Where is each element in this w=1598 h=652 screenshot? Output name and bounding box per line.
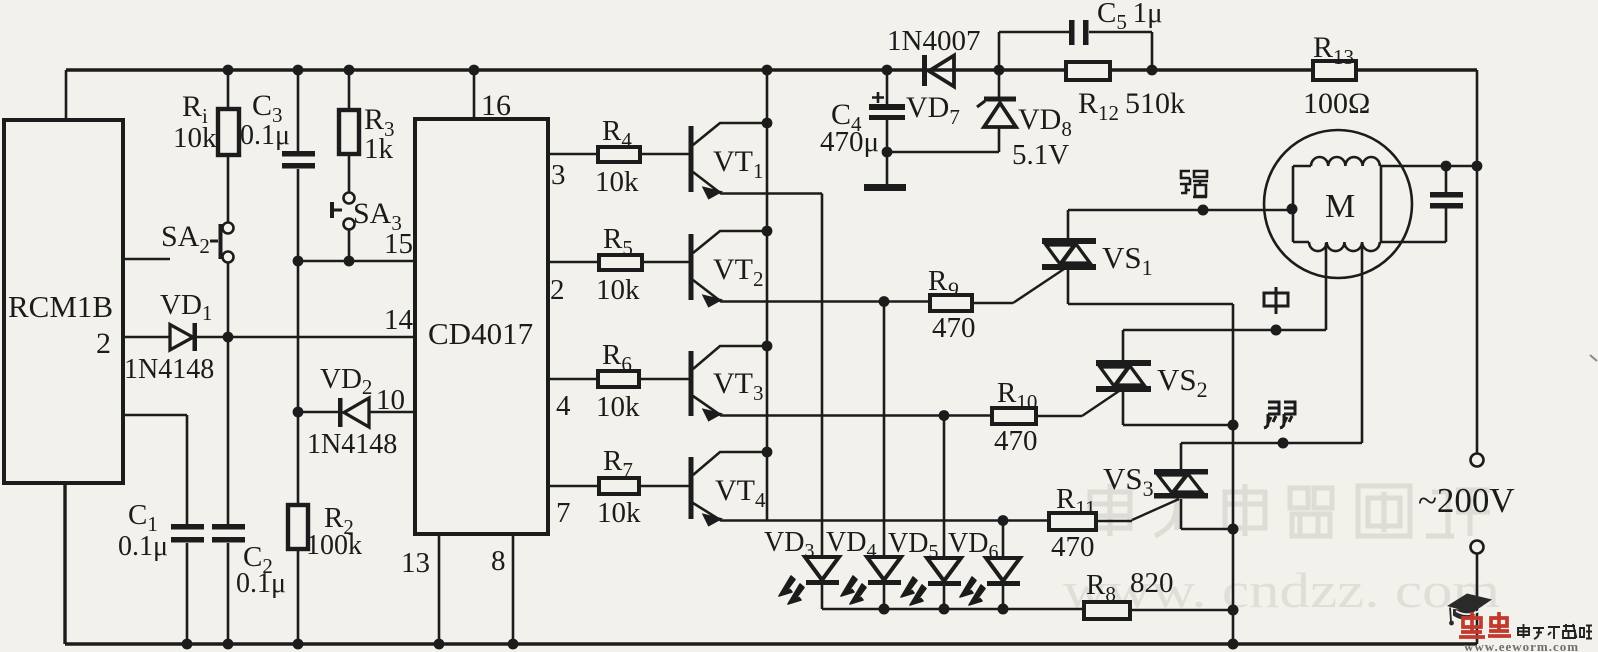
label middle (Chinese zhong) [1264,287,1288,314]
junction dots top rail [223,65,1158,76]
label strong (Chinese qiang) [1180,171,1208,197]
junction dot strong tap [1198,205,1209,216]
zener diode VD8 5.1V [892,70,1072,171]
LED VD3 [764,527,839,609]
svg-text:7: 7 [556,497,571,529]
junction dot VT1 collector [762,118,773,129]
junction dot VD5 tap [939,410,950,421]
svg-text:C5 1μ: C5 1μ [1097,0,1163,34]
wire VD4 anode drop [883,302,886,585]
IC RCM1B [4,120,123,483]
capacitor C4 470u polarized [820,70,905,158]
LED VD4 [826,527,901,609]
svg-text:1N4007: 1N4007 [887,25,980,57]
svg-text:10k: 10k [597,497,641,529]
wire speed line weak [1181,243,1362,443]
svg-text:470μ: 470μ [820,126,879,158]
resistor R7 10k [597,445,641,529]
pin 3 wire [548,153,689,156]
junction dot VT2 collector [762,226,773,237]
svg-text:R12 510k: R12 510k [1078,87,1185,125]
capacitor C5 1u bypass loop [999,0,1163,70]
node A junction dot pin14 line [223,332,234,343]
junction dots common column [1228,420,1239,650]
svg-text:CD4017: CD4017 [428,316,533,351]
pin 16 wire [473,70,476,119]
pin 2 wire [548,261,689,264]
svg-text:100Ω: 100Ω [1303,87,1370,120]
resistor R8 820 [1084,567,1233,619]
wire VS1 VS2 VS3 common column [1232,304,1235,644]
junction dots motor top right [1441,161,1483,172]
AC source 200V terminals [1418,454,1515,645]
svg-text:1N4148: 1N4148 [124,354,214,385]
junction dot VT4 collector [762,447,773,458]
svg-text:0.1μ: 0.1μ [240,120,290,151]
junction dot VD4 tap [879,296,890,307]
wire right drop from rail to motor top [1476,70,1479,454]
svg-text:0.1μ: 0.1μ [236,568,286,599]
watermark site text black characters [1518,624,1592,639]
wire top supply rail [66,68,1477,71]
diode VD1 [124,289,214,385]
svg-text:16: 16 [481,89,511,122]
junction dots pins 13 8 on rail [434,639,519,650]
wire C3 column down through VD2 node to R2 [297,261,300,505]
resistor R4 10k [595,115,640,198]
resistor R3 1k [339,70,395,193]
junction dot C4 bottom node [882,147,893,158]
LED VD5 [888,528,961,609]
svg-text:RCM1B: RCM1B [8,289,113,324]
resistor R10 470 [992,377,1122,457]
junction dot R3 column at pin15 line [344,256,355,267]
watermark chongchong red characters [1459,612,1511,637]
ground symbol [864,152,906,191]
label weak (Chinese ruo) [1264,402,1295,428]
wire speed line middle [1123,243,1326,330]
junction dot VD2 R2 node [293,407,304,418]
svg-text:470: 470 [932,312,976,344]
diode VD2 [298,363,415,460]
junction dot motor left terminal [1287,204,1298,215]
junction dot C3 at pin15 line [293,256,304,267]
resistor R5 10k [596,223,642,306]
junction dot middle tap [1271,325,1282,336]
svg-text:5.1V: 5.1V [1012,139,1069,171]
triac VS1 [1042,210,1233,304]
wire pin15 line [298,260,415,263]
svg-text:0.1μ: 0.1μ [118,531,168,562]
triac VS3 [1103,443,1233,529]
transistor VT2 [689,231,931,306]
switch SA3 [332,193,402,262]
junction dot VD6 tap [998,515,1009,526]
capacitor motor phase [1381,166,1463,242]
transistor VT1 [689,123,823,198]
svg-text:1k: 1k [364,133,394,165]
wire collector bus vertical [766,70,769,521]
svg-text:4: 4 [556,390,571,422]
LED VD6 [948,528,1020,609]
switch SA2 [161,220,234,332]
svg-text:M: M [1325,188,1355,225]
wire left drop from rail to RCM1B [65,70,68,120]
IC U1 CD4017 [415,119,548,534]
wire stub from RCM1B to SA2 label [123,258,170,261]
wire motor top to right column [1381,165,1477,168]
resistor R2 100k [288,502,362,644]
svg-text:14: 14 [384,304,414,336]
svg-text:10k: 10k [595,166,639,198]
triac VS2 [1096,330,1233,425]
watermark logo graduation cap [1447,594,1492,626]
capacitor C2 0.1u [212,524,286,644]
svg-text:www.eeworm.com: www.eeworm.com [1464,639,1579,652]
pin 13 wire [438,534,441,644]
pin 4 wire [548,378,689,381]
svg-text:~200V: ~200V [1418,481,1515,520]
small scan tick right edge [1590,355,1597,361]
wire LED cathode bus [822,608,1084,611]
svg-text:100k: 100k [306,530,362,561]
junction dots bottom rail left [182,639,304,650]
wire RCM1B pin2 to node A [123,336,415,339]
resistor R13 100ohm [1303,31,1370,120]
svg-text:2: 2 [96,327,111,360]
resistor R9 470 [928,265,1064,344]
wire bottom ground rail [65,483,1477,644]
capacitor C1 0.1u [118,415,204,644]
svg-text:10: 10 [376,384,405,416]
motor M [1264,130,1412,278]
wire SA2 column to C2 [227,342,230,524]
wire speed line strong [1068,209,1291,212]
svg-text:2: 2 [550,274,565,306]
wire VD5 anode drop [943,416,946,586]
svg-text:3: 3 [551,159,566,191]
resistor R11 470 [1049,483,1179,563]
svg-text:820: 820 [1130,567,1174,599]
transistor VT3 [689,346,993,420]
capacitor C3 0.1u [240,70,315,261]
svg-text:10k: 10k [596,391,640,423]
svg-text:470: 470 [1051,531,1095,563]
junction dot VT3 collector [762,341,773,352]
resistor R6 10k [596,339,640,423]
svg-text:10k: 10k [173,122,217,154]
svg-text:1N4148: 1N4148 [307,429,397,460]
wire VD6 anode drop [1002,521,1005,586]
resistor R1 (Ri 10k) [173,70,239,223]
svg-text:8: 8 [491,545,506,577]
watermark ghost row site name [1090,484,1490,536]
junction dots LED cathode bus [879,604,1009,615]
wire VD3 anode drop [821,194,824,585]
pin 8 wire [512,534,515,644]
diode VD7 1N4007 [887,25,980,129]
svg-text:470: 470 [994,425,1038,457]
svg-text:10k: 10k [596,274,640,306]
pin 7 wire [548,485,689,488]
svg-text:13: 13 [401,547,430,579]
resistor R12 510k [1066,62,1185,125]
transistor VT4 [689,452,1050,525]
junction dot weak tap [1278,438,1289,449]
svg-text:15: 15 [384,228,413,260]
